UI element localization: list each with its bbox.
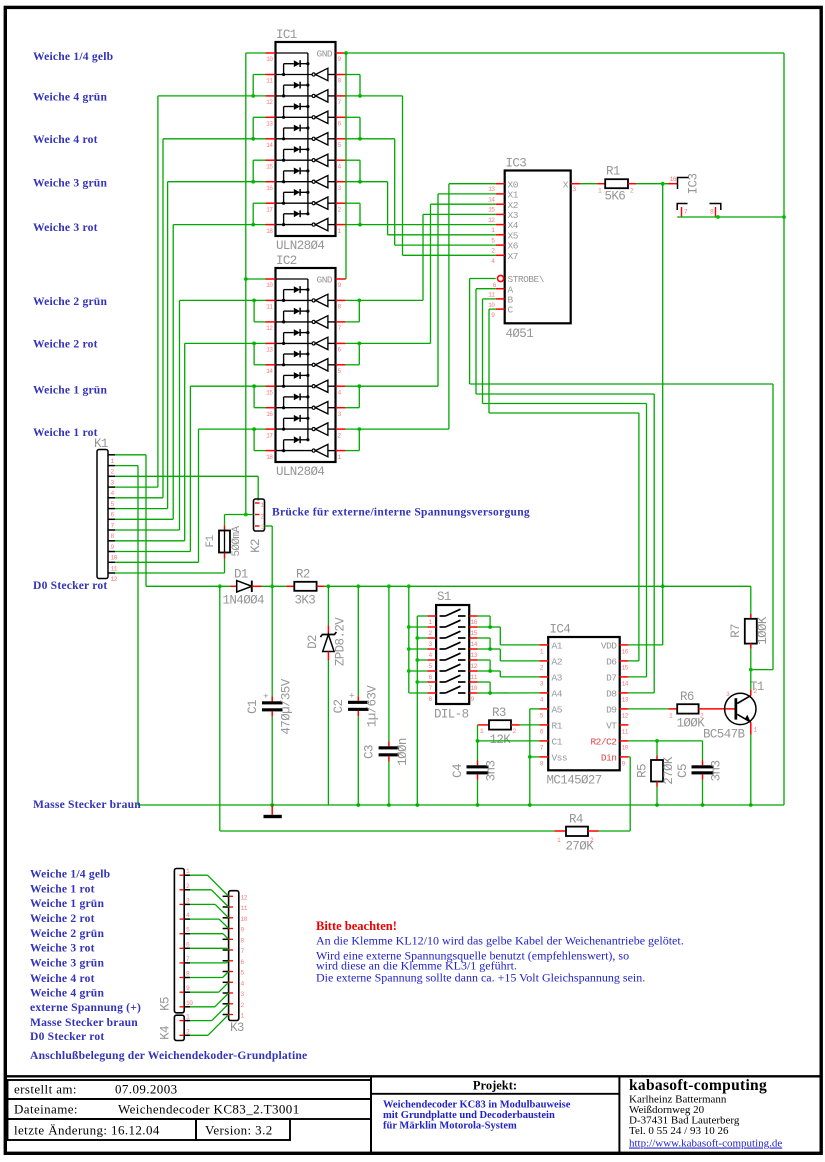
svg-text:STROBE\: STROBE\ — [508, 274, 545, 285]
wire K1 pin1 (D0) down to supply row — [115, 454, 146, 456]
junction D0 row to R4 branch — [218, 584, 222, 588]
svg-text:13: 13 — [266, 121, 273, 128]
svg-text:A4: A4 — [552, 689, 563, 700]
junction supply/C3 — [387, 584, 391, 588]
svg-text:http://www.kabasoft-computing.: http://www.kabasoft-computing.de — [629, 1138, 782, 1150]
svg-text:D2: D2 — [306, 635, 320, 649]
svg-text:16: 16 — [266, 411, 273, 418]
K1 pin 6 — [109, 508, 116, 510]
wire K5 pin4 to K3 — [190, 918, 219, 920]
junction IC1 pin9 — [344, 51, 348, 55]
svg-text:Brücke für externe/interne Spa: Brücke für externe/interne Spannungsvers… — [272, 507, 530, 519]
IC1 right pin stubs (9-1) — [336, 52, 346, 54]
K1 pin 9 — [109, 540, 116, 542]
IC2 darlington channel 4 — [276, 364, 312, 366]
svg-text:17: 17 — [266, 206, 273, 213]
svg-text:47Øµ/35V: 47Øµ/35V — [280, 678, 294, 734]
svg-text:K3: K3 — [230, 1021, 244, 1035]
wire IC1 pin11 to pin12 tie — [253, 74, 265, 76]
wire Weiche 2 rot: IC2 pins13+14 to K1 pin9 — [185, 342, 266, 344]
svg-text:10: 10 — [488, 302, 495, 309]
diode D1 1N4004 — [231, 585, 237, 587]
svg-text:IC1: IC1 — [276, 28, 297, 42]
svg-text:T1: T1 — [750, 680, 764, 694]
K3 pin 7 — [223, 949, 229, 951]
svg-text:Projekt:: Projekt: — [473, 1079, 517, 1093]
S1 pin 3 stub — [428, 637, 437, 639]
svg-text:Vss: Vss — [552, 753, 568, 764]
IC IC1 body (ULN2804) — [276, 42, 336, 236]
resistor R6 100K — [628, 708, 668, 710]
wire Weiche 1 rot: IC2 pins17+18 to K1 pin11 — [199, 428, 266, 430]
wire Weiche 1 gruen: IC2 pins15+16 to K1 pin10 — [190, 385, 265, 387]
svg-text:erstellt am:: erstellt am: — [14, 1082, 77, 1097]
wire Weiche 3 rot: IC1 pins17+18 to K1 pin7 — [173, 224, 265, 226]
K3 pin 6 — [223, 960, 229, 962]
IC1 COM rail (pin10) and top row — [276, 52, 308, 54]
svg-text:3K3: 3K3 — [295, 594, 316, 608]
wire IC1 pin13 to pin14 tie — [253, 116, 265, 118]
svg-text:11: 11 — [266, 304, 273, 311]
svg-text:13: 13 — [622, 697, 629, 704]
wire K5 pin2 to K3 — [190, 889, 211, 891]
wire IC2 pin3 to pin4 tie — [346, 407, 360, 409]
svg-text:kabasoft‑computing: kabasoft‑computing — [629, 1077, 767, 1094]
svg-text:14: 14 — [622, 681, 629, 688]
title row letzte Aenderung — [8, 1119, 197, 1140]
wire IC1 pin15 to pin16 tie — [253, 159, 265, 161]
svg-text:R7: R7 — [729, 624, 743, 638]
IC2 left pin stubs (10-18) — [266, 278, 276, 280]
svg-text:A5: A5 — [552, 705, 563, 716]
K3 pin 8 — [223, 938, 229, 940]
K5 pin 2 — [184, 889, 190, 891]
svg-text:C1: C1 — [552, 737, 563, 748]
svg-text:R4: R4 — [569, 813, 583, 827]
svg-text:Bitte beachten!: Bitte beachten! — [316, 919, 397, 933]
S1 pin 11 stub — [469, 670, 478, 672]
svg-text:16: 16 — [471, 619, 478, 626]
svg-text:11: 11 — [471, 674, 478, 681]
jumper K2 Bruecke — [254, 499, 265, 531]
wire IC4 D8 up to 4051 A — [628, 692, 654, 694]
svg-text:R6: R6 — [680, 690, 694, 704]
wire S1 pin10 to pin9 tie to IC4 A4 — [478, 681, 490, 683]
svg-text:1ØØn: 1ØØn — [396, 738, 410, 766]
title block divider projekt left — [370, 1076, 372, 1152]
svg-text:1ØØK: 1ØØK — [756, 616, 770, 645]
S1 pin 7 stub — [428, 681, 437, 683]
wire IC4 A5 to Vss to ground — [530, 708, 540, 710]
IC2 right pin stubs (9-1) — [336, 278, 346, 280]
svg-text:27ØK: 27ØK — [662, 756, 676, 785]
wire IC1 pin6 to pin5 tie — [346, 116, 360, 118]
K1 pin 10 — [109, 551, 116, 553]
title row Dateiname — [8, 1099, 372, 1119]
S1 pin 16 stub — [469, 615, 478, 617]
svg-text:12K: 12K — [490, 733, 512, 747]
wire IC1 pin9 down to IC2 pin9 — [345, 53, 347, 279]
svg-text:D9: D9 — [606, 705, 617, 716]
K3 pin 4 — [223, 981, 229, 983]
wire right-edge ground vertical — [783, 53, 785, 805]
svg-text:12: 12 — [266, 99, 273, 106]
svg-text:1µ/63V: 1µ/63V — [366, 685, 380, 728]
svg-text:10: 10 — [241, 916, 248, 923]
svg-text:C: C — [508, 305, 514, 316]
T1 collector stub — [750, 690, 752, 696]
resistor R1 5K6 — [580, 183, 597, 185]
K3 pin 10 — [223, 917, 229, 919]
wire C1 row to IC4 — [478, 740, 540, 742]
wire Weiche 4 gruen: IC1 pins11+12 to K1 pin4 — [158, 95, 266, 97]
K5 pin 9 — [184, 991, 190, 993]
S1 pin 2 stub — [428, 626, 437, 628]
IC1 darlington channel 8 — [276, 224, 312, 226]
svg-text:IC2: IC2 — [276, 254, 297, 268]
svg-text:GND: GND — [317, 275, 333, 286]
capacitor C4 3n3 — [477, 741, 479, 761]
IC3 pin B — [496, 298, 505, 300]
svg-text:16: 16 — [266, 185, 273, 192]
IC4 pin 8 (Vss) — [540, 756, 549, 758]
wire IC2 pins 3+4 to X1 — [346, 385, 438, 387]
svg-text:13: 13 — [471, 652, 478, 659]
svg-text:IC4: IC4 — [550, 623, 571, 637]
capacitor C3 100n — [388, 586, 390, 741]
S1 pin 5 stub — [428, 659, 437, 661]
fuse F1 500mA — [224, 526, 226, 531]
junction D1 cathode / K2 pin3 / C1 — [270, 584, 274, 588]
svg-text:VT: VT — [606, 721, 617, 732]
K3 pin 2 — [223, 1003, 229, 1005]
svg-text:Dateiname:: Dateiname: — [14, 1102, 78, 1117]
IC4 pin 16 (VDD) — [620, 644, 629, 646]
junction ground rail / IC3 power rail — [782, 215, 786, 219]
title block top line — [7, 1075, 821, 1077]
junction supply/S1 rail — [407, 584, 411, 588]
wire IC1 pin17 to pin18 tie — [253, 202, 265, 204]
svg-text:Weiche 1 rot: Weiche 1 rot — [30, 882, 95, 895]
K4 pin 1 — [184, 1020, 190, 1022]
K5 pin 5 — [184, 933, 190, 935]
wire R3 left to C1 pin row — [477, 725, 479, 741]
connector K5 — [174, 869, 184, 1013]
svg-text:15: 15 — [622, 665, 629, 672]
svg-text:12: 12 — [266, 325, 273, 332]
svg-text:D1: D1 — [234, 568, 248, 582]
IC3 pin C — [496, 308, 505, 310]
svg-text:Anschlußbelegung der Weichende: Anschlußbelegung der Weichendekoder-Grun… — [30, 1049, 307, 1062]
svg-text:ULN28Ø4: ULN28Ø4 — [276, 239, 324, 253]
wire IC2 pin1 to pin2 tie — [346, 450, 360, 452]
K4 pin 2 — [184, 1034, 190, 1036]
IC IC2 body (ULN2804) — [276, 268, 336, 462]
svg-text:Weiche 3 rot: Weiche 3 rot — [33, 221, 98, 234]
svg-text:Weichendecoder KC83_2.T3001: Weichendecoder KC83_2.T3001 — [118, 1102, 300, 1117]
IC3 STROBE pin with inverter bubble — [498, 275, 504, 281]
svg-text:K5: K5 — [159, 997, 173, 1011]
IC4 pin 2 (A2) — [540, 660, 549, 662]
wire VDD vertical from R1 junction — [662, 184, 664, 645]
wire IC4 D6 up to 4051 C — [628, 660, 639, 662]
svg-text:15: 15 — [471, 630, 478, 637]
wire K5 pin6 to K3 — [190, 947, 227, 949]
svg-text:18: 18 — [266, 228, 273, 235]
svg-text:10: 10 — [622, 745, 629, 752]
wire K4 pin1 to K3 pin11 — [190, 1020, 212, 1022]
svg-text:ZPD8.2V: ZPD8.2V — [334, 617, 348, 666]
K1 pin 8 — [109, 529, 116, 531]
svg-text:Weiche 3 grün: Weiche 3 grün — [33, 177, 107, 190]
K5 pin 1 — [184, 874, 190, 876]
wire IC1 pins 5+6 to X6 — [346, 138, 395, 140]
S1 pin 13 stub — [469, 648, 478, 650]
svg-text:K4: K4 — [159, 1026, 173, 1040]
K3 pin 9 — [223, 928, 229, 930]
wire R1 output to IC3 power pin 16 — [636, 183, 668, 185]
wire K2 pin2 to supply junction — [225, 514, 254, 516]
svg-text:D0 Stecker rot: D0 Stecker rot — [30, 1030, 105, 1043]
svg-text:1N4ØØ4: 1N4ØØ4 — [223, 594, 265, 608]
IC2 darlington channel 8 — [276, 450, 312, 452]
wire IC4 D7 up to 4051 B — [628, 676, 646, 678]
IC3 left pins X0-X7 — [496, 183, 505, 185]
svg-text:3n3: 3n3 — [485, 761, 499, 782]
K5 pin 6 — [184, 947, 190, 949]
IC3 4051 analog multiplexer body — [505, 171, 571, 324]
svg-text:C2: C2 — [332, 700, 346, 714]
wire K1 pin3 (externe Spannung) to K2 pin1 — [115, 475, 258, 477]
wire IC2 pins 1+2 to X0 — [346, 428, 449, 430]
ground symbol below C1 — [270, 803, 274, 807]
svg-text:14: 14 — [488, 196, 495, 203]
svg-text:12: 12 — [111, 576, 118, 583]
IC4 pin 11 (VT) — [620, 724, 629, 726]
IC1 darlington channel 3 — [276, 116, 312, 118]
junction supply/D2 — [327, 584, 331, 588]
junction R3/C1row/C4 — [476, 739, 480, 743]
S1 pin 14 stub — [469, 637, 478, 639]
svg-text:Weiche 2 rot: Weiche 2 rot — [33, 338, 98, 351]
connector K1 — [97, 450, 108, 579]
IC1 darlington channel 7 — [276, 202, 312, 204]
svg-text:Weiche 3 grün: Weiche 3 grün — [30, 956, 104, 969]
wire K5 pin10 to K3 — [190, 1006, 215, 1008]
wire IC1 pin10 (COM) supply drop — [246, 52, 266, 54]
svg-text:R1: R1 — [552, 721, 563, 732]
IC3 pin A — [496, 288, 505, 290]
svg-text:R3: R3 — [492, 706, 506, 720]
svg-text:10: 10 — [186, 1000, 193, 1007]
svg-text:Weiche 4 rot: Weiche 4 rot — [33, 133, 98, 146]
junction S1 ground rail / Masse row — [415, 803, 419, 807]
wire 4051 STROBE to T1 collector node — [470, 278, 496, 280]
wire K5 pin1 to K3 — [190, 874, 208, 876]
S1 switch 5 symbol — [440, 659, 446, 661]
wire K1 pin2 (Masse) down to ground row — [115, 465, 138, 467]
IC1 darlington channel 1 — [276, 74, 312, 76]
resistor R3 12K — [478, 724, 490, 726]
svg-text:4Ø51: 4Ø51 — [506, 327, 534, 341]
IC2 darlington channel 6 — [276, 407, 312, 409]
svg-text:3n3: 3n3 — [710, 761, 724, 782]
K3 pin 12 — [223, 895, 229, 897]
junction supply/C2 — [356, 584, 360, 588]
svg-text:15: 15 — [488, 207, 495, 214]
svg-text:letzte Änderung: 16.12.04: letzte Änderung: 16.12.04 — [14, 1123, 160, 1138]
svg-text:Weiche 4 rot: Weiche 4 rot — [30, 972, 95, 985]
K1 pin 11 — [109, 561, 116, 563]
resistor R4 270K — [554, 830, 566, 832]
svg-text:12: 12 — [471, 663, 478, 670]
wire IC2 pin9 up to IC1 pin9 net — [345, 278, 347, 280]
svg-text:D7: D7 — [606, 673, 616, 684]
svg-text:Tel. 0 55 24 / 93 10 26: Tel. 0 55 24 / 93 10 26 — [629, 1125, 729, 1137]
svg-text:5K6: 5K6 — [605, 190, 626, 204]
svg-text:Weiche 1 grün: Weiche 1 grün — [30, 897, 104, 910]
K1 pin 1 — [109, 454, 116, 456]
S1 pin 6 stub — [428, 670, 437, 672]
wire IC1 pin2 to pin1 tie — [346, 202, 360, 204]
svg-text:Weichendecoder KC83 in Modulba: Weichendecoder KC83 in Modulbauweise — [383, 1100, 571, 1111]
svg-text:14: 14 — [266, 368, 273, 375]
IC2 COM rail (pin10) and top row — [276, 278, 308, 280]
svg-text:+: + — [349, 691, 355, 702]
wire S1 pin14 to pin13 tie to IC4 A2 — [478, 637, 490, 639]
wire IC4 R2/C2 row — [628, 740, 702, 742]
svg-text:D0 Stecker rot: D0 Stecker rot — [33, 579, 108, 592]
svg-text:Weiche 4 grün: Weiche 4 grün — [30, 986, 104, 999]
svg-text:A2: A2 — [552, 657, 563, 668]
svg-text:11: 11 — [111, 565, 118, 572]
wire K2 pin3 to internal supply — [265, 525, 273, 527]
wire D1 cathode to R2 — [262, 585, 287, 587]
K1 pin 3 — [109, 475, 116, 477]
wire IC2 pin18 to pin17 tie — [254, 450, 265, 452]
svg-text:C1: C1 — [246, 700, 260, 714]
wire Masse (ground) row — [138, 804, 784, 806]
capacitor C5 3n3 — [702, 741, 704, 761]
IC2 darlington channel 5 — [276, 385, 312, 387]
svg-text:11: 11 — [622, 729, 629, 736]
svg-text:K2: K2 — [249, 539, 263, 553]
wire K5 pin9 to K3 — [190, 991, 219, 993]
IC4 pin 4 (A4) — [540, 692, 549, 694]
IC1 darlington channel 2 — [276, 95, 312, 97]
svg-text:F1: F1 — [205, 535, 217, 548]
K5 pin 8 — [184, 977, 190, 979]
wire IC1 pins 7+8 to X7 — [346, 95, 403, 97]
K1 pin 5 — [109, 497, 116, 499]
wire IC1 pins 1+2 to X4 — [346, 224, 496, 226]
IC4 pin 3 (A3) — [540, 676, 549, 678]
svg-text:Weiche 2 grün: Weiche 2 grün — [30, 927, 104, 940]
resistor R5 270K — [656, 741, 658, 756]
K1 pin 12 — [109, 572, 116, 574]
wire supply junction down to F1 top — [224, 515, 226, 526]
K1 pin 4 — [109, 486, 116, 488]
wire D0 row from K1 pin1 to D1 — [146, 585, 231, 587]
S1 switch 7 symbol — [440, 681, 446, 683]
svg-text:D8: D8 — [606, 689, 617, 700]
DIP switch S1 DIL-8 — [436, 605, 469, 704]
svg-text:Weiche 1 rot: Weiche 1 rot — [33, 426, 98, 439]
IC2 darlington channel 3 — [276, 342, 312, 344]
wire D0 branch down to R4 row — [219, 586, 221, 831]
svg-text:Din: Din — [601, 753, 617, 764]
wire IC3 power pins 7/8 to ground rail — [681, 207, 683, 217]
svg-text:Die externe Spannung sollte da: Die externe Spannung sollte dann ca. +15… — [316, 970, 645, 984]
S1 switch 8 symbol — [440, 692, 446, 694]
svg-text:DIL-8: DIL-8 — [434, 708, 469, 722]
svg-text:18: 18 — [266, 454, 273, 461]
zener diode D2 ZPD8.2V — [327, 586, 329, 625]
wire IC2 pins 5+6 to X2 — [346, 342, 431, 344]
IC4 pin 10 (R2/C2) — [620, 740, 629, 742]
IC4 pin 9 (Din) — [620, 756, 629, 758]
IC2 darlington channel 1 — [276, 299, 312, 301]
resistor R7 100K pull-up — [750, 586, 752, 614]
svg-text:GND: GND — [317, 49, 333, 60]
S1 pin 1 stub — [428, 615, 437, 617]
junction K2 pin2 / IC1 COM line — [244, 513, 248, 517]
svg-text:5ØØmA: 5ØØmA — [231, 526, 243, 557]
wire K5 pin8 to K3 — [190, 977, 223, 979]
svg-text:D6: D6 — [606, 657, 617, 668]
resistor R2 3K3 — [286, 585, 294, 587]
wire IC1 pins 3+4 to X5 — [346, 181, 388, 183]
svg-text:externe Spannung (+): externe Spannung (+) — [30, 1001, 141, 1014]
wire T1 emitter to ground — [750, 735, 752, 806]
wire S1 even pins supply rail — [408, 586, 410, 693]
wire K4 pin2 to K3 pin12 — [190, 1034, 208, 1036]
wire S1 pin12 to pin11 tie to IC4 A3 — [478, 659, 490, 661]
svg-text:R2: R2 — [296, 568, 310, 582]
svg-text:Weiche 2 grün: Weiche 2 grün — [33, 295, 107, 308]
title block divider kabasoft left — [618, 1076, 620, 1152]
svg-text:12: 12 — [622, 713, 629, 720]
junction R2/C2 row / R5 — [655, 739, 659, 743]
IC4 MC145027 decoder body — [548, 637, 620, 770]
junction IC2 pin10 on COM supply line — [244, 277, 248, 281]
junction power rail pin8 — [716, 215, 720, 219]
svg-text:15: 15 — [266, 163, 273, 170]
svg-text:Weiche 1/4 gelb: Weiche 1/4 gelb — [33, 50, 113, 63]
wire Weiche 2 gruen: IC2 pins11+12 to K1 pin8 — [180, 299, 266, 301]
wire IC2 pin14 to pin13 tie — [254, 364, 265, 366]
svg-text:C3: C3 — [363, 745, 377, 759]
wire Weiche 4 rot: IC1 pins13+14 to K1 pin5 — [163, 138, 266, 140]
IC1 darlington channel 4 — [276, 138, 312, 140]
IC4 pin 14 (D7) — [620, 676, 629, 678]
svg-text:ULN28Ø4: ULN28Ø4 — [276, 465, 324, 479]
svg-text:für Märklin Motorola-System: für Märklin Motorola-System — [383, 1121, 517, 1132]
svg-text:Masse Stecker braun: Masse Stecker braun — [33, 798, 141, 811]
S1 pin 9 stub — [469, 692, 478, 694]
svg-text:12: 12 — [488, 217, 495, 224]
svg-text:15: 15 — [266, 389, 273, 396]
svg-text:C5: C5 — [676, 764, 690, 778]
svg-text:IC3: IC3 — [506, 157, 527, 171]
K5 pin 7 — [184, 962, 190, 964]
svg-text:R5: R5 — [636, 764, 650, 778]
K3 pin 11 — [223, 906, 229, 908]
svg-text:11: 11 — [488, 292, 495, 299]
wire IC2 pin10 stub — [246, 278, 266, 280]
S1 switch 1 symbol — [440, 615, 446, 617]
wire IC1 pin4 to pin3 tie — [346, 159, 360, 161]
